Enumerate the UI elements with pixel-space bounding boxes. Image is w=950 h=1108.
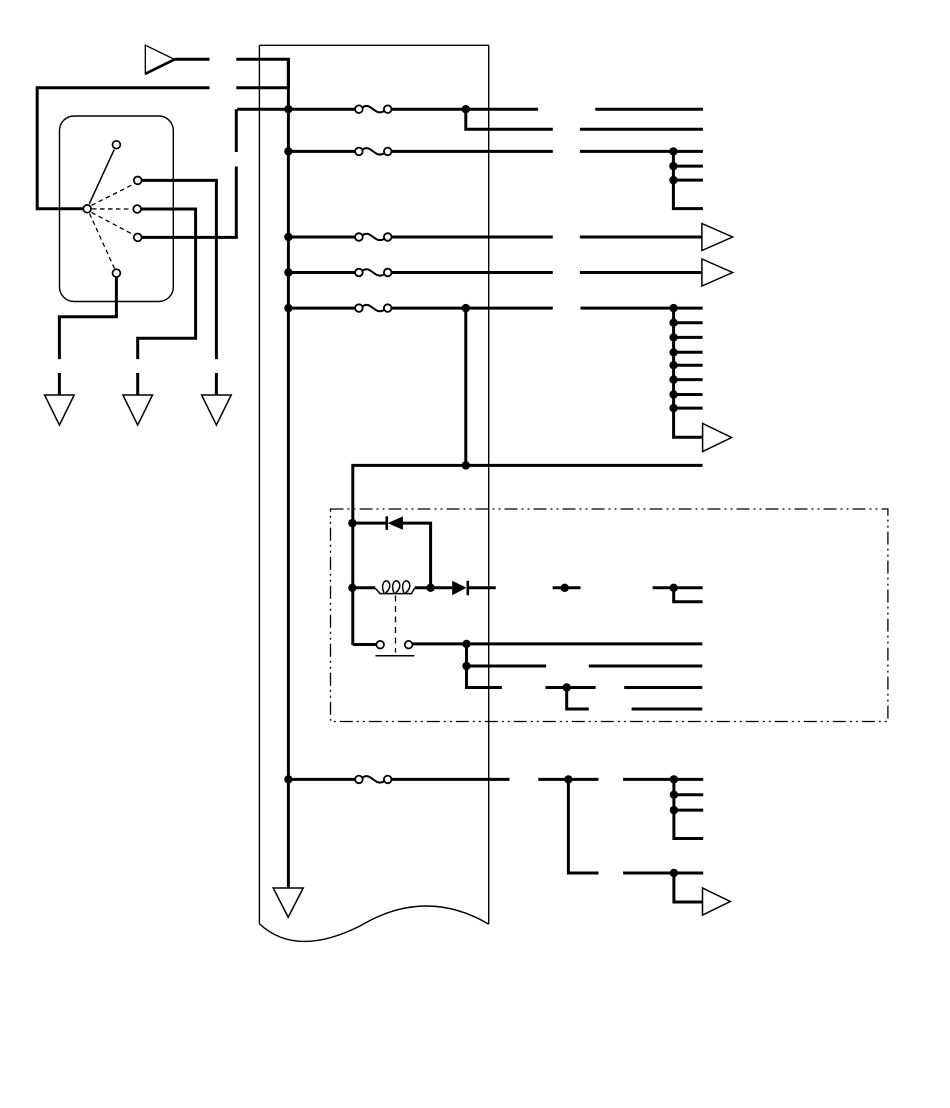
switch contact B5: [113, 269, 121, 277]
row R2 wire left: [467, 665, 547, 668]
switch blade (solid): [89, 150, 114, 204]
wire from switch common to left riser: [37, 88, 209, 209]
relay switch wire left: [353, 643, 377, 646]
relay output branch wire: [465, 644, 468, 666]
row G stub 7: [674, 407, 703, 410]
node R0-stub: [561, 584, 569, 592]
row G stub 5: [674, 378, 703, 381]
row J connector triangle: [703, 888, 731, 915]
node G-chain-0: [669, 304, 677, 312]
switch contact B2: [134, 177, 142, 185]
node H-mid: [564, 775, 572, 783]
row F wire right: [580, 271, 702, 274]
row G wire left: [288, 307, 355, 310]
relay mechanical link (dashed): [395, 596, 397, 653]
node D1: [348, 519, 356, 527]
row G stub 3: [674, 351, 703, 354]
node G-chain-2: [669, 333, 677, 341]
fuse F3: [355, 233, 391, 241]
ground arrow 3: [202, 395, 232, 425]
row C2 wire right: [580, 128, 703, 131]
relay coil wire right: [415, 586, 453, 589]
row D stub 1: [673, 165, 703, 168]
switch common terminal: [83, 205, 91, 213]
row F wire mid: [391, 271, 553, 274]
node D-chain-1: [669, 162, 677, 170]
stub at node (relay pin): [553, 586, 581, 589]
node bus-D: [284, 147, 292, 155]
wire contact B4 to block row C: [142, 109, 237, 237]
bus ground arrow: [273, 888, 303, 917]
row D branch chain: [673, 151, 703, 208]
row R2 wire right: [589, 665, 703, 668]
switch contact B3: [133, 205, 141, 213]
row H branch chain: [674, 779, 703, 838]
switch contact B4: [134, 234, 142, 242]
node G-chain-7: [669, 404, 677, 412]
node I: [462, 461, 470, 469]
node H-chain-0: [670, 775, 678, 783]
ground arrow 1 stem: [58, 373, 61, 395]
row D wire left: [288, 150, 355, 153]
row C wire left: [237, 108, 355, 111]
row D wire right: [580, 150, 703, 153]
row F wire left: [288, 271, 355, 274]
node G-chain-3: [669, 348, 677, 356]
node coil-right: [426, 584, 434, 592]
dashed contact line to B4: [92, 212, 134, 234]
node G-chain-5: [669, 375, 677, 383]
node bus-E: [284, 233, 292, 241]
dashed contact line to B5: [90, 214, 115, 269]
ground arrow 2 stem: [136, 373, 139, 395]
relay armature bar: [376, 655, 415, 657]
row J branch to connector: [674, 873, 703, 902]
wire from D2: [468, 586, 496, 589]
row H wire right: [623, 778, 703, 781]
row G stub 2: [674, 336, 703, 339]
fuse F2: [355, 148, 391, 156]
row J wire: [623, 872, 703, 875]
wire from triangle: [175, 58, 210, 61]
row I wire: [353, 465, 703, 645]
relay switch wire right: [412, 642, 702, 645]
row G branch chain: [674, 308, 703, 437]
row G connector triangle: [703, 424, 732, 452]
relay contact a: [376, 641, 384, 649]
relay pin branch L: [674, 588, 703, 602]
row C2 branch wire: [466, 109, 553, 129]
wire contact B3 to arrow 2: [138, 209, 196, 359]
row H wire second: [538, 778, 598, 781]
relay diode D1 branch wire: [353, 523, 431, 588]
row G stub 1: [674, 321, 703, 324]
node H-chain-2: [670, 806, 678, 814]
row G stub 6: [674, 393, 703, 396]
row D wire mid: [391, 150, 553, 153]
node R3: [563, 683, 571, 691]
row H branch down: [568, 779, 598, 873]
diode D2 (cathode right): [452, 581, 466, 596]
row C wire right: [595, 108, 703, 111]
wire row G to row I: [464, 308, 467, 465]
ground arrow 2: [123, 395, 153, 425]
row R4 wire right: [632, 708, 703, 711]
row H wire mid: [391, 778, 509, 781]
node G-chain-6: [669, 390, 677, 398]
relay contact b: [405, 641, 413, 649]
node G-chain-1: [669, 319, 677, 327]
row E wire right: [580, 236, 702, 239]
node bus-G: [284, 304, 292, 312]
node J: [670, 869, 678, 877]
row G stub 4: [674, 364, 703, 367]
row R4 branch wire: [567, 688, 589, 710]
row C wire mid: [391, 108, 538, 111]
off-page connector triangle (top left): [145, 45, 174, 74]
row E wire left: [288, 236, 355, 239]
wire U-loop into block: [236, 59, 288, 87]
row H stub 1: [674, 793, 703, 796]
row R3 branch wire: [467, 666, 502, 688]
relay coil: [375, 581, 414, 594]
node R0-right: [670, 584, 678, 592]
junction block outline: [259, 45, 488, 924]
wire contact B5 to arrow 1: [59, 277, 116, 359]
row H wire left: [288, 778, 355, 781]
node bus-C: [284, 105, 292, 113]
relay pin wire right: [653, 586, 703, 589]
fuse F5: [355, 304, 391, 312]
main bus wire: [287, 59, 290, 888]
fuse F6: [355, 776, 391, 784]
node D-chain-0: [669, 147, 677, 155]
fuse F4: [355, 269, 391, 277]
node G-branch: [462, 304, 470, 312]
node SW-out: [462, 640, 470, 648]
row R3 wire mid: [546, 686, 596, 689]
row G wire right: [581, 307, 703, 310]
node G-chain-4: [669, 361, 677, 369]
row F connector triangle: [702, 259, 733, 286]
switch contact B1: [113, 141, 121, 149]
node bus-F: [284, 268, 292, 276]
dashed contact line to B2: [92, 184, 134, 205]
diode D1 (cathode left): [388, 516, 403, 529]
junction block torn-edge wave: [259, 906, 488, 941]
relay enclosure (dash-dot box): [331, 509, 888, 722]
node H-chain-1: [670, 791, 678, 799]
ignition switch housing: [60, 116, 174, 302]
node bus-H: [284, 775, 292, 783]
ground arrow 3 stem: [215, 373, 218, 395]
row G wire mid: [391, 307, 553, 310]
wire contact B2 to arrow 3 riser: [142, 180, 217, 359]
node R2: [462, 662, 470, 670]
node coil-left: [348, 584, 356, 592]
row R3 wire right: [624, 686, 702, 689]
node D-chain-2: [669, 176, 677, 184]
relay coil wire left: [353, 586, 375, 589]
row D stub 2: [673, 179, 703, 182]
dashed contact line to B3: [92, 208, 132, 210]
ground arrow 1: [45, 395, 75, 425]
row H stub 2: [674, 809, 703, 812]
row E connector triangle: [702, 224, 733, 251]
fuse F1: [355, 105, 391, 113]
node C-branch: [462, 105, 470, 113]
row E wire mid: [391, 236, 553, 239]
